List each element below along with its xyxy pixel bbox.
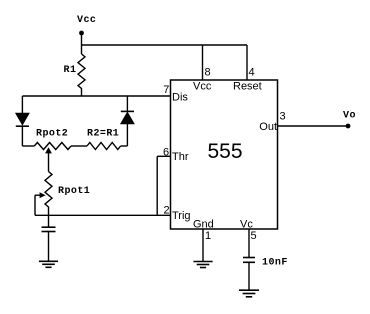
svg-text:Reset: Reset — [233, 81, 262, 93]
node Vcc dot — [79, 31, 84, 36]
wire pin5 to C2 — [248, 229, 250, 258]
svg-text:Rpot2: Rpot2 — [36, 128, 68, 139]
svg-text:R1: R1 — [64, 65, 77, 76]
capacitor C2 10nF — [243, 258, 288, 291]
ground G2 — [193, 262, 212, 268]
wire Out (pin 3 net) — [278, 125, 349, 127]
svg-text:8: 8 — [205, 67, 211, 79]
svg-text:5: 5 — [251, 230, 257, 242]
wiper arrow of Rpot1 — [35, 192, 46, 215]
node Vo dot — [346, 124, 351, 129]
wire pin8 drop — [202, 45, 204, 80]
wire pin6 stub — [157, 155, 170, 157]
svg-text:Gnd: Gnd — [193, 219, 214, 231]
wire pin4 drop — [246, 45, 248, 80]
svg-text:Trig: Trig — [172, 210, 191, 222]
svg-text:Rpot1: Rpot1 — [58, 186, 90, 197]
resistor R1 — [64, 54, 86, 96]
svg-text:R2=R1: R2=R1 — [87, 128, 119, 139]
svg-text:10nF: 10nF — [262, 258, 288, 269]
wire between Rpot2 and R2 — [71, 145, 87, 147]
op-amp U1 555 box — [171, 80, 278, 229]
wire Trig horizontal (pin 2 net) — [35, 214, 171, 216]
potentiometer Rpot1 — [45, 172, 90, 228]
diode D2 (right, pointing up) — [121, 96, 134, 146]
svg-text:Vc: Vc — [240, 219, 253, 231]
wire R2 to D2 corner — [121, 145, 128, 147]
wire Dis horizontal (pin 7 net) — [22, 95, 170, 97]
ground G3 — [239, 290, 259, 297]
ground G1 — [39, 261, 58, 267]
svg-text:Dis: Dis — [172, 92, 188, 104]
svg-text:Vcc: Vcc — [193, 81, 212, 93]
resistor R2=R1 — [87, 128, 121, 149]
potentiometer Rpot2 — [34, 128, 71, 149]
svg-text:4: 4 — [249, 67, 255, 79]
wire pin6 to Trig net vertical — [156, 156, 158, 215]
capacitor C1 — [42, 227, 56, 261]
svg-text:7: 7 — [163, 84, 169, 96]
svg-text:Thr: Thr — [172, 151, 189, 163]
svg-text:Out: Out — [259, 121, 277, 133]
wire Vcc vertical to R1 — [81, 33, 83, 54]
wiper arrow of Rpot2 — [45, 147, 52, 171]
svg-text:Vcc: Vcc — [77, 15, 96, 26]
wire bottom-left segment — [22, 145, 34, 147]
svg-text:2: 2 — [164, 205, 170, 217]
diode D1 (left, pointing down) — [16, 96, 29, 146]
svg-text:Vo: Vo — [343, 111, 356, 122]
wire pin1 to ground — [202, 229, 204, 262]
wire top horizontal Vcc rail — [82, 44, 248, 46]
svg-text:1: 1 — [205, 230, 211, 242]
svg-text:3: 3 — [280, 111, 286, 123]
svg-text:555: 555 — [207, 140, 242, 163]
svg-text:6: 6 — [163, 147, 169, 159]
